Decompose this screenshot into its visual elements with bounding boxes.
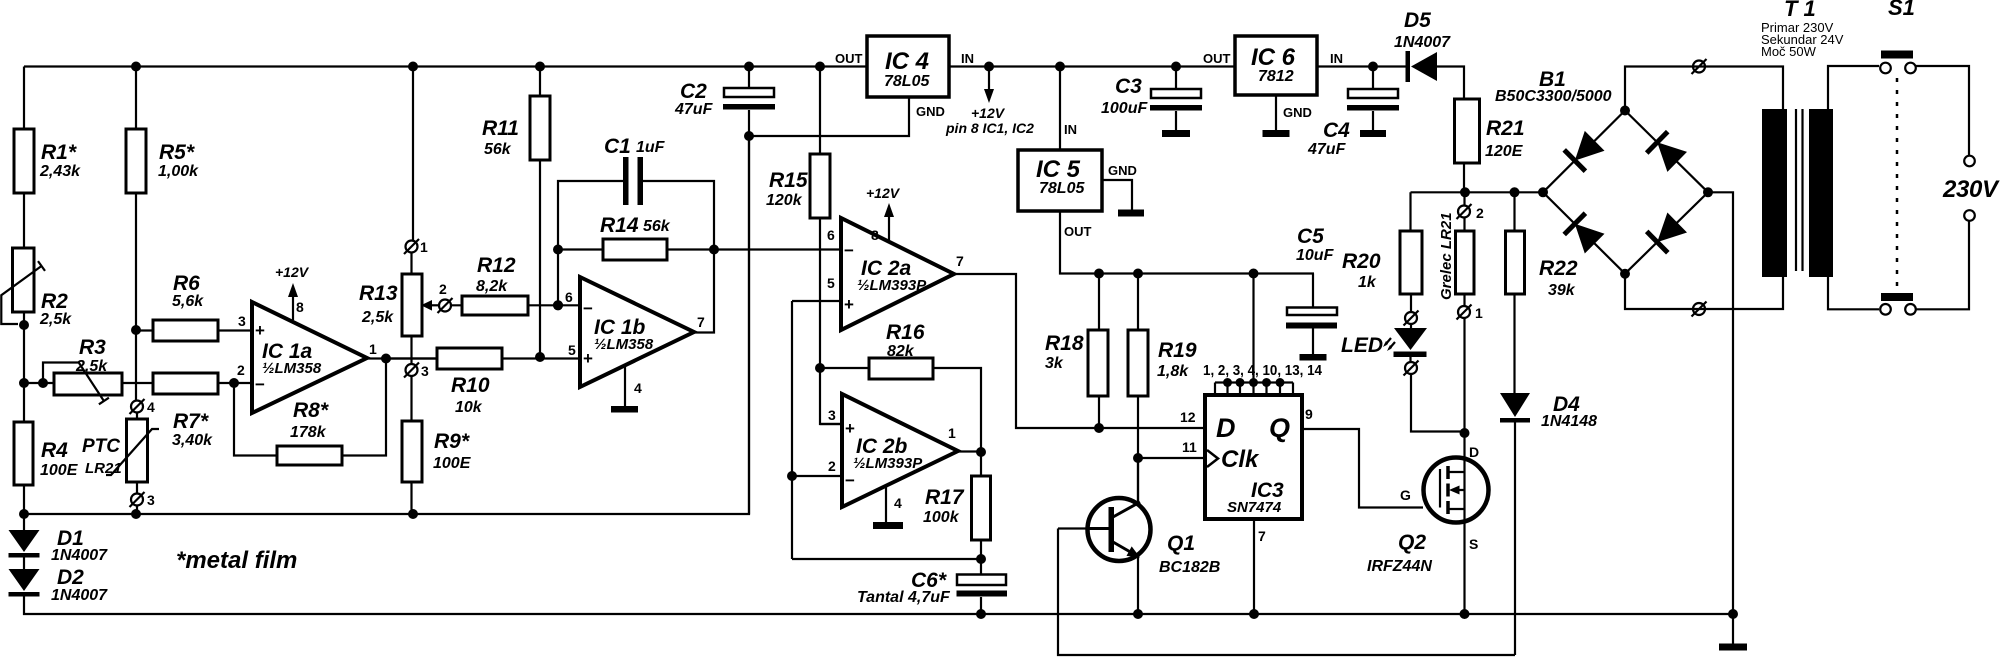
heater element Grelec LR21 (1438, 192, 1484, 433)
wire: IC1b out to IC2a pin6 (714, 248, 841, 250)
svg-text:Moč 50W: Moč 50W (1761, 44, 1817, 59)
power arrow +12V IC1a pin8 (275, 264, 310, 320)
svg-text:B50C3300/5000: B50C3300/5000 (1495, 88, 1612, 105)
regulator IC5 78L05 (1018, 67, 1102, 212)
svg-text:Q: Q (1269, 413, 1290, 443)
wire: bottom ground rail (24, 597, 1733, 620)
svg-text:−: − (845, 471, 855, 490)
capacitor C1 (604, 135, 666, 205)
svg-text:R4: R4 (41, 439, 68, 462)
svg-text:3: 3 (238, 313, 246, 329)
svg-text:R14: R14 (600, 214, 639, 237)
svg-text:1N4007: 1N4007 (1394, 34, 1451, 51)
svg-text:D5: D5 (1404, 9, 1431, 32)
ground IC2b pin4 (873, 487, 903, 529)
op-amp IC1b (565, 277, 705, 387)
svg-text:R12: R12 (477, 254, 516, 277)
svg-text:6: 6 (827, 227, 835, 243)
svg-text:1,00k: 1,00k (158, 163, 199, 180)
svg-text:120E: 120E (1485, 143, 1524, 160)
svg-text:G: G (1400, 487, 1411, 503)
wire: secondary top (1625, 67, 1783, 111)
wire: Q1 base loop (1058, 529, 1515, 656)
svg-text:+12V: +12V (866, 185, 901, 201)
resistor R12 (451, 254, 580, 315)
ground IC1b pin4 (611, 366, 642, 413)
bridge rectifier B1 (1495, 68, 1713, 279)
resistor R6 (136, 272, 252, 341)
wire: IC4 GND (749, 97, 945, 136)
svg-text:3: 3 (147, 492, 155, 508)
svg-text:10uF: 10uF (1296, 247, 1335, 264)
svg-text:7: 7 (697, 314, 705, 330)
capacitor C4 (1307, 67, 1399, 159)
svg-text:R18: R18 (1045, 332, 1084, 355)
svg-text:−: − (255, 375, 265, 394)
svg-text:39k: 39k (1548, 282, 1576, 299)
svg-text:GND: GND (1108, 163, 1137, 178)
svg-text:+: + (583, 349, 593, 368)
svg-text:+: + (845, 419, 855, 438)
svg-text:5: 5 (827, 275, 835, 291)
terminal 2 (R13 wiper) (438, 281, 453, 313)
resistor R1 (14, 129, 81, 193)
svg-text:OUT: OUT (1064, 224, 1092, 239)
transformer T1 (1761, 0, 1844, 277)
svg-text:2: 2 (237, 362, 245, 378)
svg-text:R15: R15 (769, 169, 808, 192)
svg-text:R20: R20 (1342, 250, 1381, 273)
svg-text:S1: S1 (1888, 0, 1915, 20)
resistor R5 (126, 129, 199, 193)
svg-text:1: 1 (1475, 305, 1483, 321)
op-amp IC2b (828, 394, 958, 507)
svg-text:R5*: R5* (159, 141, 195, 164)
svg-text:D: D (1469, 444, 1479, 460)
wire: IC2b pin3 (820, 423, 842, 425)
svg-text:5: 5 (568, 342, 576, 358)
svg-text:12: 12 (1180, 409, 1196, 425)
label: +12V pin 8 feed (945, 67, 1034, 137)
svg-text:IRFZ44N: IRFZ44N (1367, 558, 1432, 575)
resistor R7 (153, 373, 218, 449)
wire: LED to drain node (1411, 375, 1465, 432)
svg-text:GND: GND (916, 104, 945, 119)
svg-text:100E: 100E (433, 455, 472, 472)
svg-text:7: 7 (956, 253, 964, 269)
wire: R5/PTC column (131, 67, 141, 515)
capacitor C5 (1286, 225, 1337, 361)
resistor R18 (1045, 274, 1108, 429)
svg-text:Q2: Q2 (1398, 531, 1426, 554)
svg-text:178k: 178k (290, 424, 327, 441)
svg-text:2,5k: 2,5k (39, 311, 72, 328)
wire: IC3 tied pins bus (1203, 274, 1323, 396)
svg-text:1N4148: 1N4148 (1541, 413, 1597, 430)
svg-text:120k: 120k (766, 192, 803, 209)
resistor R14 (558, 214, 714, 260)
svg-text:IN: IN (1330, 51, 1343, 66)
wire: IC1a output pin1 (367, 354, 437, 364)
svg-text:Grelec LR21: Grelec LR21 (1438, 212, 1455, 300)
wire: IC3 Q to Q2 gate (1302, 429, 1423, 508)
svg-text:+12V: +12V (275, 264, 310, 280)
terminal (secondary top) (1692, 59, 1707, 74)
terminal 1 (R13 top) (404, 239, 428, 255)
svg-text:C1: C1 (604, 135, 631, 158)
wire: IC2b out node (958, 447, 986, 457)
svg-text:2: 2 (439, 281, 447, 297)
resistor R2 (trimmer) (1, 248, 72, 328)
svg-text:GND: GND (1283, 105, 1312, 120)
svg-text:1uF: 1uF (636, 139, 666, 156)
diode D2 1N4007 (9, 558, 109, 605)
diode D1 1N4007 (9, 514, 109, 564)
svg-text:T 1: T 1 (1784, 0, 1816, 21)
svg-text:*metal film: *metal film (176, 547, 297, 574)
svg-text:1: 1 (369, 341, 377, 357)
svg-text:+: + (255, 321, 265, 340)
svg-text:1,8k: 1,8k (1157, 363, 1189, 380)
resistor R20 (1342, 192, 1422, 311)
svg-text:6: 6 (565, 289, 573, 305)
svg-text:R6: R6 (173, 272, 200, 295)
trimmer R13 (359, 274, 440, 336)
svg-text:1N4007: 1N4007 (51, 587, 108, 604)
wire: R2/R3 node row y383 (24, 378, 252, 388)
svg-text:2: 2 (1476, 205, 1484, 221)
ground IC6 GND (1263, 95, 1312, 137)
ground IC5 GND (1102, 163, 1144, 217)
ground (main) (1719, 614, 1747, 651)
svg-text:56k: 56k (643, 218, 671, 235)
resistor R11 (482, 67, 550, 358)
wire: 24V dc rail (1317, 62, 1464, 100)
transistor Q1 BC182B (1088, 458, 1221, 614)
svg-text:82k: 82k (887, 343, 915, 360)
terminal 3 (PTC bottom) (130, 492, 156, 508)
op-amp IC2a (827, 218, 964, 330)
svg-text:100k: 100k (923, 509, 960, 526)
svg-text:C5: C5 (1297, 225, 1324, 248)
svg-text:C2: C2 (680, 80, 707, 103)
svg-text:100uF: 100uF (1101, 100, 1148, 117)
svg-text:1, 2, 3, 4, 10, 13, 14: 1, 2, 3, 4, 10, 13, 14 (1203, 362, 1323, 379)
svg-text:230V: 230V (1942, 176, 2000, 203)
svg-text:4: 4 (894, 495, 902, 511)
svg-text:OUT: OUT (835, 51, 863, 66)
svg-text:R9*: R9* (434, 430, 470, 453)
svg-text:Q1: Q1 (1167, 532, 1195, 555)
resistor R9 (402, 421, 472, 482)
svg-text:IC 4: IC 4 (885, 48, 929, 75)
diode D5 1N4007 (1394, 9, 1451, 82)
svg-text:R22: R22 (1539, 257, 1578, 280)
wire: mains 230V (1916, 66, 2000, 309)
terminal 4 (PTC top) (130, 399, 156, 415)
svg-text:1k: 1k (1358, 274, 1377, 291)
svg-text:8: 8 (296, 299, 304, 315)
power arrow +12V IC2a pin8 (866, 185, 901, 243)
svg-text:Tantal 4,7uF: Tantal 4,7uF (857, 589, 951, 606)
svg-text:1: 1 (420, 239, 428, 255)
svg-text:8: 8 (871, 227, 879, 243)
svg-text:78L05: 78L05 (1039, 180, 1085, 197)
svg-text:D: D (1216, 413, 1236, 443)
svg-text:R10: R10 (451, 374, 490, 397)
wire: secondary bottom (1625, 274, 1783, 309)
svg-text:R19: R19 (1158, 339, 1197, 362)
svg-text:4: 4 (147, 399, 155, 415)
switch S1 (1880, 0, 1916, 315)
svg-text:47uF: 47uF (674, 101, 714, 118)
svg-text:4: 4 (634, 380, 642, 396)
capacitor C6 (857, 559, 1007, 614)
svg-text:R16: R16 (886, 321, 925, 344)
svg-text:−: − (844, 241, 854, 260)
resistor R8 (feedback) (234, 359, 386, 466)
flip-flop IC3 SN7474 (1180, 395, 1313, 544)
wire: 24V node line (1411, 187, 1544, 197)
svg-text:LR21: LR21 (85, 460, 122, 477)
svg-text:C4: C4 (1323, 119, 1350, 142)
terminal 3 (below R13) (404, 363, 429, 380)
terminal (LED bottom) (1404, 361, 1419, 376)
wire: C1/R14 feedback loop (553, 181, 719, 333)
svg-text:47uF: 47uF (1307, 141, 1347, 158)
regulator IC4 78L05 (835, 36, 974, 97)
op-amp IC1a (237, 302, 377, 413)
svg-text:−: − (583, 299, 593, 318)
svg-text:100E: 100E (40, 462, 79, 479)
wire: primary bottom (1828, 277, 1879, 309)
svg-text:IN: IN (1064, 122, 1077, 137)
wire: IC3 pin7 ground (1253, 519, 1255, 614)
svg-text:SN7474: SN7474 (1227, 499, 1282, 516)
svg-text:IC 6: IC 6 (1251, 44, 1296, 71)
svg-text:C3: C3 (1115, 75, 1142, 98)
svg-text:OUT: OUT (1203, 51, 1231, 66)
resistor R16 (820, 321, 981, 452)
resistor R10 (386, 348, 580, 416)
resistor R17 (923, 452, 991, 564)
wire: bridge minus to ground (1708, 192, 1738, 619)
svg-text:IC 5: IC 5 (1036, 156, 1081, 183)
svg-text:10k: 10k (455, 399, 483, 416)
wire: R13 column (412, 67, 414, 515)
resistor R19 (1128, 274, 1197, 459)
svg-text:BC182B: BC182B (1159, 559, 1220, 576)
wire: +12V rail (IC4 in to IC6 out) (949, 62, 1235, 72)
wire: Q1 collector to IC3 Clk (1133, 453, 1205, 503)
svg-text:pin 8 IC1, IC2: pin 8 IC1, IC2 (945, 120, 1034, 136)
terminal (R20 to LED) (1404, 311, 1419, 326)
svg-text:9: 9 (1305, 406, 1313, 422)
svg-text:R8*: R8* (293, 399, 329, 422)
svg-text:S: S (1469, 536, 1478, 552)
svg-text:3: 3 (828, 407, 836, 423)
svg-text:D2: D2 (57, 566, 84, 589)
svg-text:R7*: R7* (173, 410, 209, 433)
svg-text:3,40k: 3,40k (172, 432, 213, 449)
resistor R3 (trimmer) (43, 336, 122, 404)
wire: Q2 source (1460, 509, 1470, 619)
svg-text:½LM393P: ½LM393P (857, 277, 927, 294)
svg-text:8,2k: 8,2k (476, 278, 508, 295)
svg-text:11: 11 (1182, 439, 1197, 455)
wire: Q2 drain node (1460, 428, 1470, 472)
svg-text:7812: 7812 (1258, 68, 1294, 85)
svg-text:½LM358: ½LM358 (594, 336, 654, 353)
svg-text:R21: R21 (1486, 117, 1525, 140)
svg-text:2: 2 (828, 458, 836, 474)
terminal (secondary bottom) (1692, 302, 1707, 317)
svg-text:3k: 3k (1045, 355, 1064, 372)
svg-text:R2: R2 (41, 290, 68, 313)
svg-text:+: + (844, 295, 854, 314)
thermistor PTC LR21 (82, 419, 159, 482)
svg-text:Clk: Clk (1221, 446, 1260, 473)
wire: upper ground rail (19, 136, 749, 519)
svg-text:R3: R3 (79, 336, 106, 359)
svg-text:2,5k: 2,5k (361, 309, 394, 326)
svg-text:IN: IN (961, 51, 974, 66)
resistor R15 (766, 67, 841, 425)
svg-text:PTC: PTC (82, 436, 120, 457)
svg-text:R13: R13 (359, 282, 398, 305)
regulator IC6 7812 (1203, 36, 1343, 95)
svg-text:R17: R17 (925, 486, 965, 509)
svg-text:1N4007: 1N4007 (51, 547, 108, 564)
wire: ramp node to R17/C6 (792, 558, 981, 560)
wire: IC2a pin5 / ramp node column (787, 301, 841, 559)
svg-text:3: 3 (421, 363, 429, 379)
wire: IC2a out to IC3 D (954, 274, 1205, 433)
svg-text:56k: 56k (484, 141, 512, 158)
wire: ground feed column x749 (744, 131, 754, 514)
svg-text:2,5k: 2,5k (75, 358, 108, 375)
wire: 5V top rail (24, 62, 867, 72)
svg-text:½LM358: ½LM358 (262, 360, 322, 377)
svg-text:R11: R11 (482, 117, 519, 140)
resistor R22 (1506, 192, 1578, 393)
svg-text:7: 7 (1258, 528, 1266, 544)
wire: IC2b pin2 (792, 475, 842, 477)
svg-text:1: 1 (948, 425, 956, 441)
svg-text:5,6k: 5,6k (172, 293, 204, 310)
note: metal film (176, 547, 297, 574)
svg-text:2,43k: 2,43k (39, 163, 81, 180)
capacitor C3 (1101, 67, 1202, 138)
wire: primary top (1828, 66, 1879, 109)
resistor R4 (14, 422, 79, 485)
svg-text:R1*: R1* (41, 141, 77, 164)
LED (1341, 325, 1427, 362)
transistor Q2 IRFZ44N (1367, 444, 1489, 575)
svg-text:LED: LED (1341, 334, 1383, 357)
svg-text:78L05: 78L05 (884, 73, 930, 90)
wire: left column R1-R2-R4 (19, 67, 29, 515)
capacitor C2 (674, 67, 775, 137)
wire: IC5 OUT 5V line (1060, 211, 1314, 279)
svg-text:½LM393P: ½LM393P (853, 455, 923, 472)
diode D4 1N4148 (1500, 393, 1597, 655)
svg-text:+12V: +12V (971, 105, 1006, 121)
resistor R21 (1455, 99, 1525, 192)
